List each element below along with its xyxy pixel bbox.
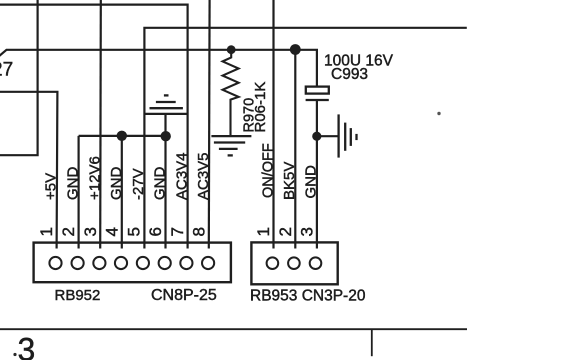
svg-text:RB953 CN3P-20: RB953 CN3P-20 [250,288,366,305]
wire vertical at x38 entering from top, exits left [0,0,38,155]
junction dot below capacitor [312,132,321,141]
svg-text:5: 5 [124,227,143,236]
wire +12V6 pin 3 from top [99,0,102,249]
junction dot GND bus pin 6 [161,131,171,141]
svg-text:GND: GND [108,167,125,201]
svg-text:3: 3 [81,227,100,236]
frame divider vertical [371,329,373,356]
resistor R970 [223,50,239,135]
svg-text:1: 1 [37,227,56,236]
svg-text:ON/OFF: ON/OFF [260,143,276,198]
capacitor C993 plates [306,87,329,100]
wire second horizontal into -27V column [144,28,466,249]
svg-text:2: 2 [276,227,295,236]
speck near zone number [13,353,16,356]
svg-text:+12V6: +12V6 [86,156,103,200]
ground (right-pointing, right of C993) [339,114,357,157]
svg-text:R06-1K: R06-1K [252,82,269,133]
svg-text:4: 4 [102,227,121,236]
svg-text:C993: C993 [331,66,368,83]
connector RB953 body [251,242,337,284]
svg-text:RB952: RB952 [55,287,101,304]
ground (down-pointing, below R970) [211,136,251,155]
wire main horizontal net (27) with left jog, down to capacitor [0,50,317,87]
bottom frame border [0,328,467,330]
wire GND pin 3 below capacitor [316,100,318,249]
svg-text:6: 6 [146,227,165,236]
wire GND pin 6 from ground bar [164,114,166,249]
connector RB952 pin circles [49,257,214,269]
svg-text:2: 2 [59,227,78,236]
connector RB953 pin circles [267,257,322,269]
ground (up-pointing, on ground bar) [150,95,183,108]
wire GND pin 2 [77,136,79,249]
stray speck artifact [437,112,440,115]
svg-text:GND: GND [65,167,82,201]
svg-text:3: 3 [297,227,316,236]
svg-text:-27V: -27V [130,168,147,200]
svg-text:8: 8 [190,227,209,236]
svg-text:27: 27 [0,59,13,80]
svg-text:3: 3 [18,332,36,360]
svg-text:AC3V5: AC3V5 [195,152,212,200]
svg-text:1: 1 [254,227,273,236]
wire junction to right ground [317,135,338,137]
connector RB952 body [34,243,231,283]
svg-text:7: 7 [168,227,187,236]
svg-text:CN8P-25: CN8P-25 [151,287,217,304]
svg-text:AC3V4: AC3V4 [173,152,190,200]
wire ON/OFF pin 1 from top [272,0,274,249]
svg-text:+5V: +5V [43,173,60,200]
svg-text:GND: GND [152,167,169,201]
wire ground bar between -27V and AC3V4 columns [144,113,187,115]
wire BK5V pin 2 from junction [294,50,296,249]
junction dot GND bus pin 4 [117,131,127,141]
wire GND bus [79,135,166,137]
svg-text:BK5V: BK5V [281,162,298,200]
wire +5V pin 1 from box corner [0,92,57,249]
wire GND pin 4 from bus dot [121,136,123,249]
wire AC3V5 pin 8 from top [208,0,211,249]
junction dot on main net at BK5V [290,44,301,55]
svg-text:GND: GND [303,165,320,199]
wire top-left horizontal into AC3V4 column [0,5,188,249]
junction dot on main net at R970 [227,45,236,54]
